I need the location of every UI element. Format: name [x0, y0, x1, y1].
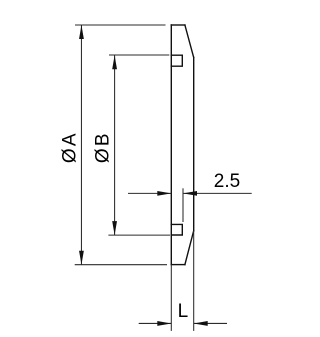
svg-text:L: L [178, 301, 189, 322]
svg-text:2.5: 2.5 [214, 171, 240, 192]
svg-text:ØA: ØA [60, 131, 81, 163]
svg-text:ØB: ØB [92, 131, 113, 163]
